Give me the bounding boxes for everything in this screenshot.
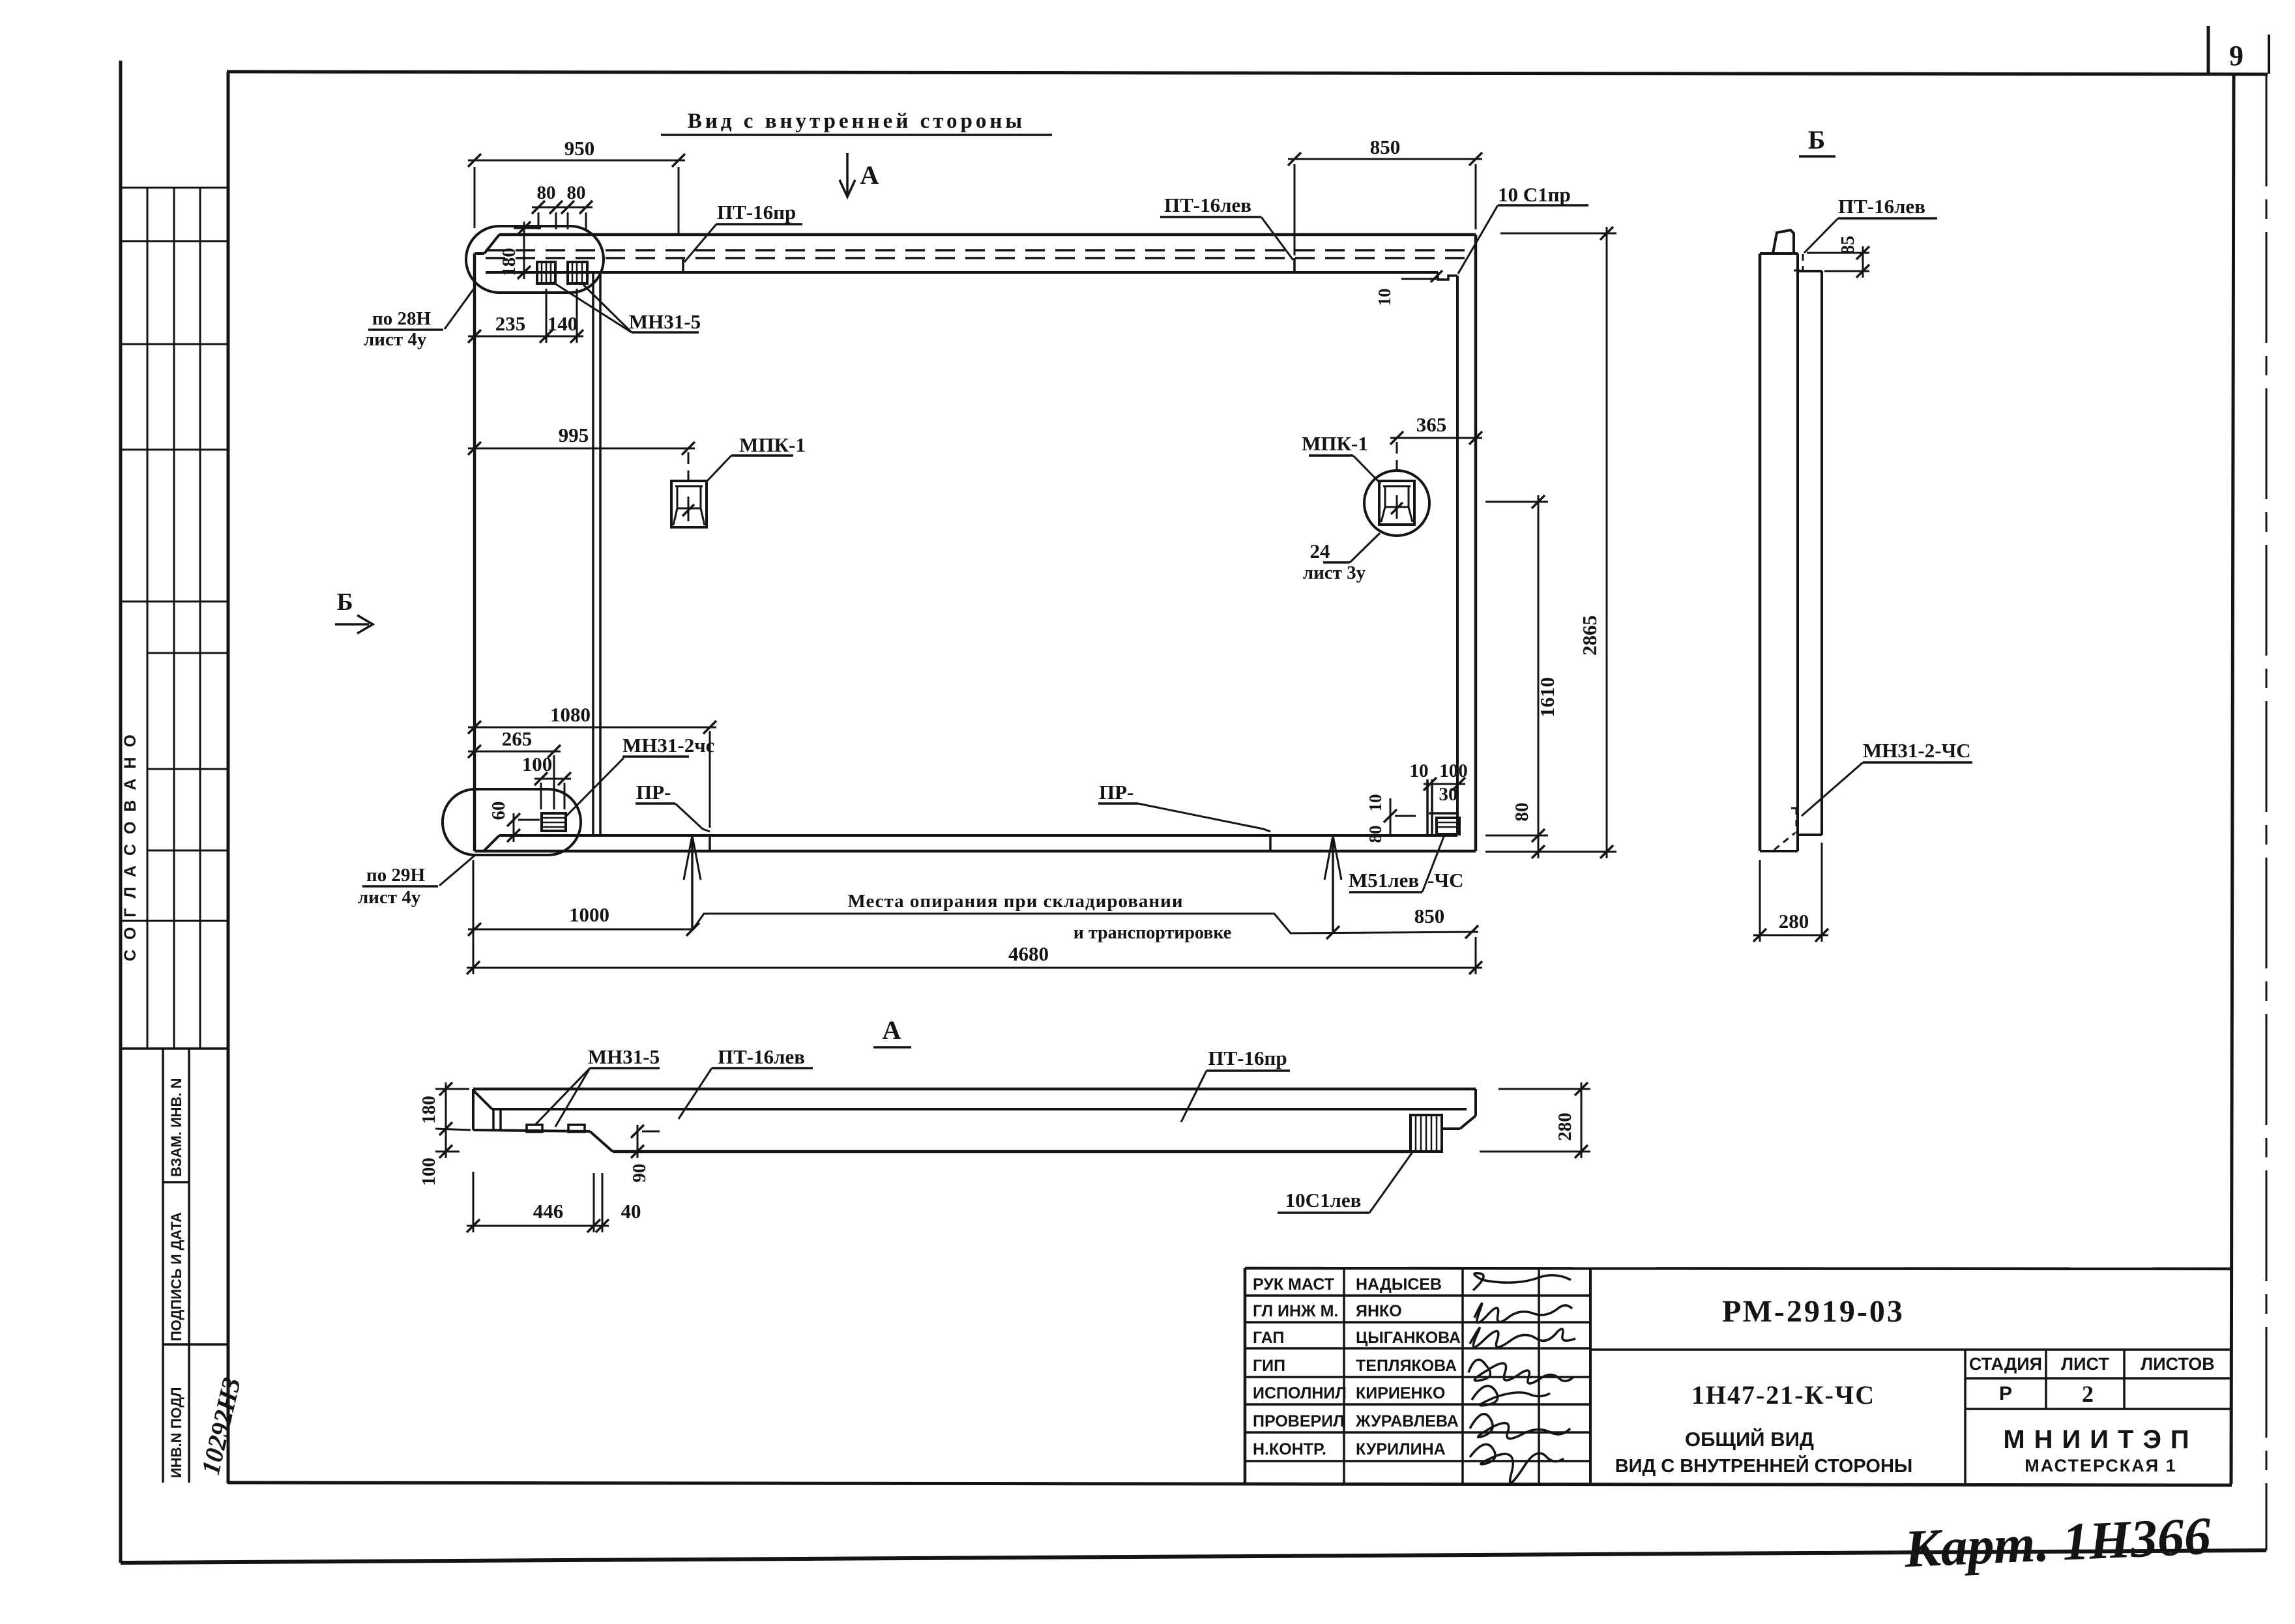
svg-text:235: 235 [495,312,526,335]
title block name columns [1343,1268,1345,1484]
svg-text:80: 80 [1512,803,1532,822]
svg-text:ТЕПЛЯКОВА: ТЕПЛЯКОВА [1356,1357,1457,1375]
svg-text:365: 365 [1416,413,1447,436]
support arrow left [691,835,694,929]
svg-text:4680: 4680 [1008,942,1049,965]
svg-text:10: 10 [1375,289,1394,306]
lifting loop MPK-1 left [671,481,707,527]
section A hatched block 10S1lev [1411,1115,1442,1152]
svg-text:МН31-5: МН31-5 [629,310,701,333]
title block stage table [1964,1350,1966,1484]
svg-text:МН31-2чс: МН31-2чс [622,734,714,757]
svg-text:10: 10 [1410,761,1429,781]
section A second line [492,1108,1467,1110]
dimension 180 vertical [523,222,525,279]
svg-text:1610: 1610 [1536,677,1558,718]
svg-text:ПТ-16лев: ПТ-16лев [1164,194,1251,216]
svg-text:МН31-5: МН31-5 [588,1045,660,1068]
svg-text:по 28Н: по 28Н [372,308,431,329]
svg-text:10С1лев: 10С1лев [1285,1189,1362,1211]
anchor plate M51lev vertical lines [1426,779,1429,834]
svg-text:10: 10 [1366,794,1385,812]
svg-text:МАСТЕРСКАЯ 1: МАСТЕРСКАЯ 1 [2025,1456,2176,1475]
svg-text:КУРИЛИНА: КУРИЛИНА [1356,1440,1446,1458]
section A bottom edge [613,1150,1411,1153]
detail balloon top-left (po 28N) [466,226,604,293]
svg-text:лист 4у: лист 4у [358,887,421,908]
left strip table rows [120,187,227,189]
top band seam PT-16lev [1293,258,1296,272]
lifting loop MPK-1 right in circle [1364,471,1429,536]
svg-text:100: 100 [1439,761,1468,781]
panel bottom-left chamfer [484,835,499,851]
svg-text:ПР-: ПР- [636,781,671,804]
svg-text:30: 30 [1439,784,1458,805]
svg-text:ИНВ.N ПОДЛ: ИНВ.N ПОДЛ [168,1387,184,1478]
section A left double vertical [492,1109,495,1131]
top band seam PT-16pr [682,258,684,272]
dimension 265 [468,751,561,753]
svg-text:Н.КОНТР.: Н.КОНТР. [1253,1440,1326,1458]
svg-text:по 29Н: по 29Н [366,865,425,886]
section B rib strip [1798,270,1822,272]
top band dashed centerlines [486,249,1472,252]
svg-text:80: 80 [1366,826,1385,843]
svg-text:МПК-1: МПК-1 [739,433,806,456]
svg-text:ПТ-16пр: ПТ-16пр [1208,1047,1287,1069]
svg-text:и транспортировке: и транспортировке [1074,923,1231,943]
panel right edge [1474,235,1478,851]
svg-text:МПК-1: МПК-1 [1302,432,1368,455]
svg-text:1Н47-21-К-ЧС: 1Н47-21-К-ЧС [1691,1380,1875,1410]
svg-text:280: 280 [1779,910,1809,933]
dimension 180 section A [445,1082,447,1158]
svg-text:Р: Р [1999,1383,2012,1404]
dimension 1080 [468,727,716,729]
panel bottom outer edge [475,850,1476,853]
svg-text:РУК МАСТ: РУК МАСТ [1253,1275,1334,1294]
drawing frame top [227,72,2268,74]
section A top edge [473,1088,1476,1091]
embedded plate MN31-2chs [542,813,566,831]
title block outline [1245,1268,2232,1269]
svg-text:ЦЫГАНКОВА: ЦЫГАНКОВА [1356,1329,1461,1347]
signatures squiggles [1473,1273,1571,1290]
panel bottom inner edge [499,834,1457,837]
svg-text:2: 2 [2082,1381,2094,1407]
dimension 280 section B [1753,935,1828,936]
svg-text:850: 850 [1414,905,1445,927]
inner bottom line (title block base) [227,1483,2232,1485]
section A right end [1442,1127,1460,1130]
svg-text:9: 9 [2229,40,2244,72]
dimension 80 10 left vertical [1390,798,1392,835]
svg-text:265: 265 [502,727,533,750]
lower-left sub-table [120,1047,227,1050]
section B top tenon PT-16lev [1773,230,1794,254]
svg-text:ЖУРАВЛЕВА: ЖУРАВЛЕВА [1355,1412,1459,1430]
svg-text:КИРИЕНКО: КИРИЕНКО [1356,1384,1445,1402]
svg-text:лист 4у: лист 4у [364,329,427,350]
svg-text:МНИИТЭП: МНИИТЭП [2003,1425,2198,1454]
section A left block bottom [473,1130,590,1131]
svg-text:РМ-2919-03: РМ-2919-03 [1722,1294,1905,1329]
dimension 1610 vertical [1538,495,1540,858]
section A plates MN31-5 edge-on [527,1125,542,1132]
dimension 80 80 [532,207,592,209]
dimension 2865 vertical [1606,227,1608,858]
dimension 446 / 40 [467,1225,609,1227]
dimension 90 vertical [637,1125,639,1158]
panel top edge [499,233,1476,237]
drawing frame left [227,72,230,1483]
svg-text:ВЗАМ. ИНВ. N: ВЗАМ. ИНВ. N [168,1078,184,1177]
svg-text:1000: 1000 [569,903,609,926]
dimension 4680 [467,967,1482,969]
section B body [1760,252,1798,255]
svg-text:А: А [883,1015,901,1045]
svg-text:А: А [860,160,879,190]
dimension 1000 with jog [468,929,693,931]
svg-text:С О Г Л А С О В А Н О: С О Г Л А С О В А Н О [121,732,139,961]
svg-text:995: 995 [559,424,589,446]
section A left end [472,1089,475,1130]
dimension 365 [1390,437,1482,439]
svg-text:ГИП: ГИП [1253,1357,1285,1375]
page outer right edge [2266,76,2268,1550]
svg-text:ПР-: ПР- [1099,781,1133,804]
left strip table verticals [119,188,121,1049]
svg-text:850: 850 [1370,136,1401,158]
svg-text:ЛИСТ: ЛИСТ [2061,1354,2109,1374]
svg-text:ИСПОЛНИЛ: ИСПОЛНИЛ [1253,1384,1347,1402]
svg-text:24: 24 [1310,540,1330,562]
dimension 100 bottom-left [534,778,571,780]
drawing frame right [2231,74,2234,1484]
panel top-left chamfer [484,235,499,254]
svg-text:ПОДПИСЬ И ДАТА: ПОДПИСЬ И ДАТА [168,1212,184,1341]
page outer left border [119,61,123,1563]
svg-text:ОБЩИЙ ВИД: ОБЩИЙ ВИД [1685,1427,1814,1451]
svg-text:ЯНКО: ЯНКО [1356,1302,1402,1320]
dimension 10 100 top [1424,783,1465,785]
panel left edge [473,254,476,851]
svg-text:180: 180 [418,1095,439,1124]
svg-text:ВИД С ВНУТРЕННЕЙ СТОРОНЫ: ВИД С ВНУТРЕННЕЙ СТОРОНЫ [1615,1455,1913,1477]
dimension 280 section A [1581,1082,1583,1158]
svg-text:Б: Б [336,588,353,616]
svg-text:85: 85 [1837,236,1858,255]
title block name rows [1245,1294,1590,1297]
embedded plate MN31-5 #1 [537,262,555,283]
svg-text:Вид с внутренней стороны: Вид с внутренней стороны [688,109,1025,133]
dimension 850 top [1288,158,1482,160]
svg-text:140: 140 [548,312,578,335]
svg-text:ГАП: ГАП [1253,1329,1284,1347]
svg-text:446: 446 [533,1200,564,1223]
dimension 995 [468,448,695,450]
section arrow A pointing down [846,153,849,196]
svg-text:СТАДИЯ: СТАДИЯ [1969,1354,2042,1374]
svg-text:-ЧС: -ЧС [1427,869,1463,892]
svg-text:1080: 1080 [550,703,591,726]
svg-text:М51лев: М51лев [1349,869,1419,892]
dimension 950 [468,160,685,162]
svg-text:НАДЫСЕВ: НАДЫСЕВ [1356,1275,1442,1294]
section B hidden tenon dashes [1802,254,1804,270]
page outer bottom border [121,1550,2266,1563]
dimension 85 [1862,246,1864,278]
svg-text:90: 90 [629,1164,650,1183]
detail balloon bottom-left (po 29N) [443,789,581,855]
support arrow right [1332,835,1334,933]
panel inner right vertical [1456,276,1459,835]
svg-text:ПТ-16лев: ПТ-16лев [1838,195,1925,218]
svg-text:10 С1пр: 10 С1пр [1498,183,1571,206]
left rib inner double line [592,272,594,835]
embedded plate MN31-5 #2 [568,262,587,283]
sheet number 9 box [2207,26,2210,74]
svg-text:40: 40 [621,1200,641,1223]
svg-text:2865: 2865 [1578,615,1601,656]
bottom band seam left (PR-) [709,835,711,851]
svg-text:80: 80 [567,182,586,203]
top band bottom line [486,271,1438,274]
svg-text:100: 100 [418,1157,439,1186]
anchor plate M51lev box [1429,812,1458,815]
svg-text:ЛИСТОВ: ЛИСТОВ [2141,1354,2215,1374]
svg-text:950: 950 [564,137,595,160]
top-right corner notch [1438,272,1457,280]
svg-text:60: 60 [488,802,509,820]
svg-text:100: 100 [522,753,553,776]
svg-text:280: 280 [1555,1112,1575,1141]
svg-text:лист 3у: лист 3у [1303,562,1366,583]
svg-text:ПТ-16лев: ПТ-16лев [718,1045,805,1068]
dimension 235 / 140 [468,336,583,338]
bottom band seam right (PR-) [1269,835,1272,851]
svg-text:ГЛ ИНЖ М.: ГЛ ИНЖ М. [1253,1302,1338,1320]
dimension 60 vertical [513,813,515,842]
section B hidden plate dashes bottom [1796,808,1798,833]
section A notch [590,1131,613,1152]
title block doc number divider [1590,1348,2232,1351]
svg-text:ПРОВЕРИЛ: ПРОВЕРИЛ [1253,1412,1345,1430]
svg-text:МН31-2-ЧС: МН31-2-ЧС [1863,739,1971,762]
svg-text:Б: Б [1808,125,1825,154]
left strip partial rows [147,652,227,654]
svg-text:Места опирания при складирован: Места опирания при складировании [847,891,1183,912]
svg-text:ПТ-16пр: ПТ-16пр [717,201,796,224]
svg-text:80: 80 [537,182,556,203]
